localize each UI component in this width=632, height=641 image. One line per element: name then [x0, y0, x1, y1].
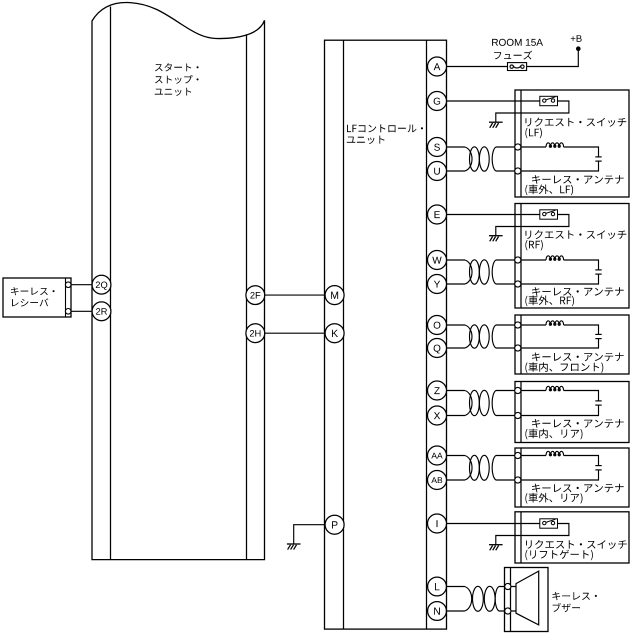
request switch symbol — [540, 210, 558, 219]
wire G to request switch — [446, 100, 540, 102]
start-stop unit label — [155, 63, 199, 71]
terminal Z — [428, 381, 447, 400]
terminal 2Q — [92, 275, 111, 294]
keyless receiver label — [11, 287, 55, 295]
terminal K — [325, 324, 344, 343]
wire receiver to 2R — [71, 310, 92, 312]
terminal 2F — [246, 286, 265, 305]
request switch (RF) label — [526, 230, 627, 239]
request switch symbol — [540, 96, 558, 105]
keyless antenna (int front) label — [532, 353, 624, 362]
terminal 2R — [92, 302, 111, 321]
wire O/Q to antenna (twisted pair) — [446, 325, 518, 348]
wire switch to ground — [496, 101, 569, 122]
terminal M — [325, 286, 344, 305]
ground (E switch) — [489, 236, 503, 242]
terminal S — [428, 138, 447, 157]
antenna coil loop — [521, 321, 602, 348]
request switch (liftgate) label — [526, 540, 627, 549]
request switch symbol — [540, 519, 558, 528]
ground (G switch) — [489, 122, 503, 128]
terminal 2H — [246, 324, 265, 343]
speaker horn symbol — [516, 571, 539, 625]
terminal AB — [428, 471, 447, 490]
terminal AA — [428, 446, 447, 465]
keyless receiver box — [3, 278, 71, 317]
wire switch to ground — [496, 524, 569, 545]
ground (I switch) — [489, 545, 503, 551]
antenna pin top — [515, 144, 521, 150]
wire 2F to M — [265, 294, 325, 296]
ROOM 15A fuse label — [492, 39, 543, 46]
antenna pin bottom — [515, 281, 521, 287]
LF control unit label — [347, 124, 423, 132]
wire AA/AB to antenna (twisted pair) — [446, 455, 518, 480]
fuse ROOM 15A symbol — [508, 63, 527, 71]
request switch (liftgate) box — [515, 512, 629, 563]
receiver pin top — [65, 282, 71, 288]
wire L/N to buzzer (twisted pair) — [446, 586, 508, 611]
wire E to request switch — [446, 214, 540, 216]
terminal A — [428, 57, 447, 76]
antenna pin bottom — [515, 477, 521, 483]
terminal U — [428, 162, 447, 181]
wire I to request switch — [446, 523, 540, 525]
request switch (RF) / keyless antenna (ext RF) box — [515, 204, 629, 309]
terminal Y — [428, 275, 447, 294]
antenna coil loop — [521, 386, 602, 415]
ground (P) — [287, 544, 301, 550]
antenna coil loop — [521, 256, 602, 284]
keyless buzzer label — [552, 592, 597, 600]
request switch (LF) label — [526, 118, 627, 127]
antenna coil loop — [521, 143, 602, 171]
antenna pin bottom — [515, 345, 521, 351]
antenna pin top — [515, 452, 521, 458]
keyless antenna (ext rear) label — [532, 484, 624, 493]
terminal G — [428, 92, 447, 111]
receiver pin bottom — [65, 309, 71, 315]
keyless antenna (ext LF) label — [532, 175, 624, 184]
wire Z/X to antenna (twisted pair) — [446, 390, 518, 415]
wire S/U to antenna (twisted pair) — [446, 147, 518, 171]
keyless antenna (ext rear) box — [515, 448, 629, 507]
antenna coil loop — [521, 451, 602, 480]
buzzer pin top — [505, 583, 511, 589]
wire W/Y to antenna (twisted pair) — [446, 260, 518, 284]
LF control unit box — [325, 40, 447, 629]
terminal I — [428, 514, 447, 533]
antenna pin top — [515, 387, 521, 393]
terminal W — [428, 251, 447, 270]
wire fuse to +B — [527, 49, 579, 67]
keyless antenna (int rear) label — [532, 419, 624, 428]
request switch (LF) / keyless antenna (ext LF) box — [515, 90, 629, 197]
antenna pin top — [515, 322, 521, 328]
keyless antenna (int front) box — [515, 315, 629, 374]
wire buzzer pins to speaker — [511, 587, 516, 612]
terminal Q — [428, 339, 447, 358]
+B terminal dot — [576, 46, 581, 51]
terminal N — [428, 602, 447, 621]
terminal L — [428, 577, 447, 596]
terminal E — [428, 205, 447, 224]
terminal A wire / fuse / +B — [446, 66, 508, 68]
start-stop unit box — [92, 2, 265, 559]
buzzer pin bottom — [505, 608, 511, 614]
wire switch to ground — [496, 215, 569, 236]
antenna pin bottom — [515, 412, 521, 418]
keyless antenna (int rear) box — [515, 382, 629, 443]
antenna pin bottom — [515, 168, 521, 174]
wire receiver to 2Q — [71, 284, 92, 286]
terminal O — [428, 316, 447, 335]
antenna pin top — [515, 257, 521, 263]
terminal P — [325, 515, 344, 534]
terminal X — [428, 406, 447, 425]
wire 2H to K — [265, 332, 325, 334]
wire P to ground — [294, 525, 326, 544]
+B label — [571, 35, 582, 42]
keyless antenna (ext RF) label — [532, 287, 624, 296]
keyless buzzer box — [505, 568, 549, 632]
